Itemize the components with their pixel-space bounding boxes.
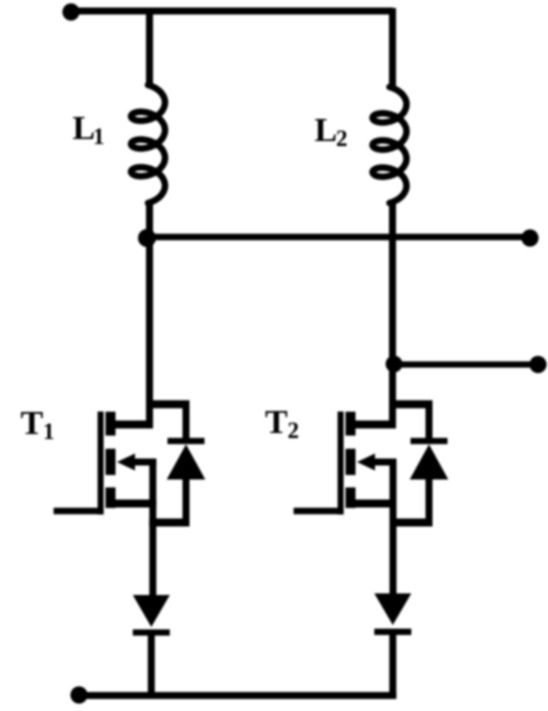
diode body-T1: bottom branch bbox=[149, 519, 189, 527]
diode body-T2: triangle (anode) bbox=[410, 444, 449, 479]
wire: top bus bbox=[71, 8, 393, 15]
wire: L1 top lead bbox=[146, 8, 153, 85]
wire: output bus 2 bbox=[394, 361, 538, 367]
diode body-T2: bottom branch bbox=[390, 519, 433, 527]
transistor T2: source contact bar bbox=[346, 487, 356, 508]
transistor T1: source lead bbox=[111, 500, 157, 508]
svg-text:2: 2 bbox=[288, 418, 300, 443]
wire: output bus 1 bbox=[147, 234, 530, 241]
inductor L2 bbox=[373, 87, 407, 203]
diode body-T2: anode lead bbox=[426, 478, 433, 527]
svg-text:T: T bbox=[21, 405, 44, 442]
transistor T1: body contact bar bbox=[106, 449, 116, 475]
diode D4: triangle (anode, pointing down) bbox=[374, 593, 411, 625]
diode body-T2: cathode lead bbox=[426, 403, 433, 441]
diode body-T1: triangle (anode) bbox=[167, 444, 206, 479]
transistor T2: drain contact bar bbox=[346, 412, 356, 436]
wire: T2 source to diode D4 bbox=[390, 522, 397, 594]
svg-text:T: T bbox=[265, 404, 288, 441]
inductor L1 bbox=[131, 85, 165, 203]
diode body-T2: top branch bbox=[389, 400, 433, 408]
wire: T1 drain vertical bbox=[146, 237, 153, 429]
svg-text:1: 1 bbox=[43, 419, 55, 444]
transistor T2: gate lead bbox=[294, 508, 344, 515]
svg-text:L: L bbox=[315, 112, 338, 149]
node: bottom-left terminal bbox=[70, 686, 87, 703]
node: output terminal 2 bbox=[529, 356, 546, 373]
node: output terminal 1 bbox=[521, 229, 538, 246]
diode body-T1: top branch bbox=[146, 400, 190, 408]
node: junction of L1 and T1 drain bbox=[138, 229, 156, 247]
node: top-left input terminal bbox=[62, 3, 79, 20]
diode body-T2: cathode bar bbox=[411, 438, 448, 444]
wire: L2 bottom lead / T2 drain vertical bbox=[389, 203, 396, 429]
node: junction of T2 drain and output 2 bbox=[386, 356, 403, 373]
wire: L2 top lead bbox=[389, 8, 396, 87]
diode D4: cathode bar bbox=[374, 629, 411, 635]
transistor T2: gate bar bbox=[338, 412, 344, 515]
diode body-T1: cathode lead bbox=[183, 403, 190, 441]
wire: T2 source vertical bbox=[390, 459, 397, 527]
transistor T2: body contact bar bbox=[346, 449, 356, 475]
svg-text:2: 2 bbox=[336, 126, 348, 151]
diode D3: triangle (anode, pointing down) bbox=[133, 595, 170, 627]
wire: bottom bus bbox=[79, 692, 396, 699]
svg-text:1: 1 bbox=[93, 124, 105, 149]
svg-text:L: L bbox=[73, 110, 96, 147]
transistor T2: source lead bbox=[351, 500, 397, 508]
wire: T1 source vertical bbox=[149, 459, 156, 527]
transistor T1: body lead arrow bbox=[132, 459, 157, 466]
wire: T1 source to diode D3 bbox=[149, 522, 156, 596]
transistor T2: body lead arrow bbox=[372, 459, 397, 466]
wire: D3 to bottom bus bbox=[148, 634, 155, 696]
transistor T1: source contact bar bbox=[106, 487, 116, 508]
diode body-T1: cathode bar bbox=[168, 438, 205, 444]
transistor T1: drain lead bbox=[111, 421, 154, 429]
transistor T1: drain contact bar bbox=[106, 412, 116, 436]
transistor T1: gate lead bbox=[54, 508, 104, 515]
transistor T2: drain lead bbox=[351, 421, 397, 429]
transistor T1: gate bar bbox=[98, 412, 104, 515]
diode D3: cathode bar bbox=[133, 629, 170, 635]
diode body-T1: anode lead bbox=[183, 478, 190, 527]
wire: D4 to bottom bus bbox=[389, 632, 396, 699]
wire: L1 bottom lead bbox=[146, 203, 153, 237]
